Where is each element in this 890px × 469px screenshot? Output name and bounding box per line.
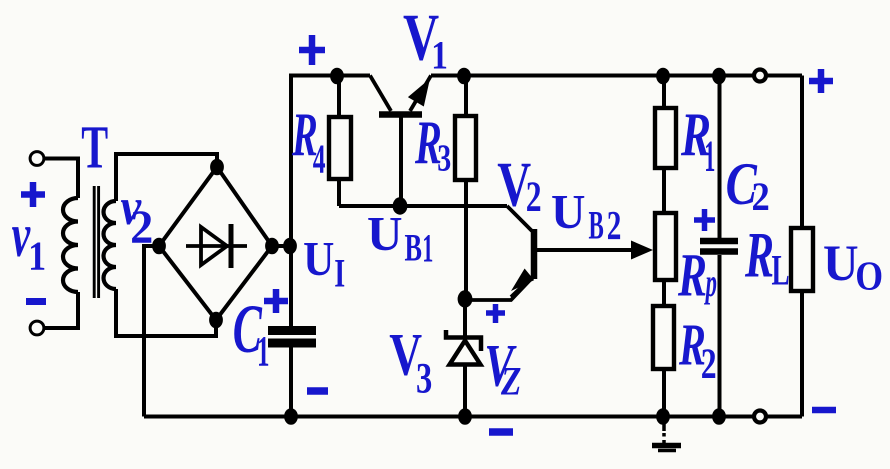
svg-text:1: 1	[422, 226, 433, 270]
wire input top to transformer primary	[44, 159, 78, 199]
label + (C2 polarity)	[694, 209, 715, 231]
label + (C1 polarity)	[264, 289, 288, 313]
svg-text:3: 3	[437, 138, 451, 180]
node R2 bottom	[656, 408, 670, 425]
wire secondary bottom to bridge bottom	[116, 289, 216, 336]
transformer T secondary winding	[104, 201, 117, 289]
svg-text:2: 2	[526, 173, 542, 221]
wire V2 emitter to zener node	[465, 278, 532, 300]
svg-text:1: 1	[704, 131, 715, 180]
svg-text:Z: Z	[500, 359, 521, 404]
wire top rail left segment	[289, 74, 370, 78]
node bridge bottom	[209, 312, 223, 329]
node R1 top	[656, 68, 670, 85]
label v1	[12, 199, 47, 279]
svg-text:R: R	[744, 219, 774, 290]
label + (V_Z polarity)	[486, 304, 505, 323]
svg-text:p: p	[704, 261, 717, 305]
svg-text:2: 2	[607, 202, 622, 248]
node U_B1	[393, 197, 408, 214]
label R2	[678, 312, 716, 388]
node zener bottom	[458, 408, 472, 425]
wire transformer primary bottom to input	[44, 292, 78, 328]
svg-text:U: U	[823, 234, 859, 291]
wire bridge left to bottom rail	[144, 246, 159, 417]
label + (rail polarity top)	[299, 35, 325, 65]
zener diode V3	[446, 299, 481, 417]
transistor V2	[507, 206, 534, 297]
label U_O	[823, 234, 883, 299]
wire base node to V2 collector	[339, 204, 507, 208]
label V2	[497, 150, 541, 222]
node rail at bridge output	[283, 238, 297, 255]
output terminal +	[754, 70, 766, 82]
wire top rail right segment	[431, 74, 802, 78]
label R4	[291, 101, 325, 182]
input terminal top-left	[30, 152, 44, 166]
node bridge left	[152, 238, 166, 255]
label R1	[680, 99, 715, 180]
svg-text:L: L	[772, 246, 790, 294]
label v2	[121, 178, 154, 255]
svg-text:T: T	[81, 115, 108, 182]
transformer T primary winding	[63, 198, 78, 292]
label C1	[233, 290, 270, 375]
svg-text:I: I	[334, 250, 345, 295]
label V3	[389, 320, 432, 403]
node C2 top	[712, 68, 726, 85]
node C1 at bottom rail	[284, 408, 298, 425]
wire positive rail above C1	[289, 76, 293, 328]
node R4 top	[330, 68, 344, 85]
wire secondary top to bridge top	[116, 154, 217, 201]
wire bottom rail	[144, 415, 802, 419]
node R3 top	[457, 68, 471, 85]
svg-text:U: U	[303, 233, 334, 287]
transformer core	[94, 186, 98, 298]
svg-text:1: 1	[257, 327, 269, 375]
label V_Z	[484, 333, 521, 405]
label − (v1 polarity)	[26, 298, 46, 305]
svg-text:B: B	[589, 204, 604, 248]
label U_B2	[551, 185, 621, 248]
svg-text:2: 2	[752, 176, 770, 220]
input terminal bottom-left	[30, 321, 44, 335]
output terminal −	[754, 411, 766, 423]
svg-text:U: U	[551, 185, 585, 239]
load resistor RL	[791, 76, 813, 417]
label − (V_Z polarity)	[489, 428, 513, 436]
svg-text:4: 4	[313, 136, 326, 182]
capacitor C1	[268, 331, 316, 344]
svg-text:B: B	[405, 226, 422, 269]
wire C1 bottom to bottom rail	[289, 346, 293, 417]
bridge diode symbol	[186, 224, 247, 268]
label T	[81, 115, 108, 182]
label − (C1 polarity)	[307, 387, 328, 395]
label − (output polarity)	[812, 407, 836, 414]
svg-text:1: 1	[28, 233, 46, 279]
node C2 bottom	[712, 408, 726, 425]
wire V1 base lead	[399, 117, 403, 206]
svg-text:2: 2	[701, 340, 717, 388]
node bridge right	[265, 238, 279, 255]
label Rp	[677, 243, 717, 310]
bridge rectifier diamond	[159, 167, 272, 320]
resistor R3	[455, 76, 476, 299]
node zener top	[458, 290, 473, 307]
resistor R1	[655, 76, 676, 213]
node bridge top	[210, 159, 224, 176]
label V1	[403, 0, 448, 77]
wire bridge right to positive rail	[272, 244, 291, 248]
label + (output polarity)	[809, 69, 833, 93]
svg-text:O: O	[855, 254, 883, 299]
ground	[652, 424, 681, 451]
wire V2 base to Rp wiper (U_B2 arrow)	[537, 241, 653, 260]
transistor V1	[370, 76, 431, 115]
label U_B1	[367, 206, 433, 270]
label U_I	[303, 233, 345, 296]
label R3	[414, 109, 451, 180]
resistor R4	[329, 76, 351, 206]
potentiometer Rp	[655, 213, 676, 280]
svg-text:U: U	[367, 206, 403, 261]
svg-text:3: 3	[416, 355, 432, 403]
resistor R2	[653, 280, 674, 417]
label R_L	[744, 219, 789, 294]
svg-text:1: 1	[431, 33, 448, 78]
label C2	[726, 151, 770, 220]
capacitor C2	[700, 76, 738, 417]
label + (v1 polarity)	[21, 182, 45, 207]
